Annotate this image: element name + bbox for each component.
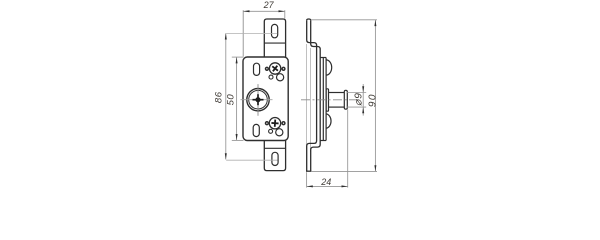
arrow 27 right [279, 10, 285, 12]
bottom screw bump [326, 114, 331, 129]
bottom tab fold line [264, 147, 285, 149]
arrow 27 left [243, 10, 249, 12]
arrow 24 right [342, 185, 348, 187]
shaft bottom line [329, 106, 345, 108]
side dot left top [266, 67, 269, 70]
dim 90 extension top [311, 19, 377, 21]
dim dia9 extension bottom [347, 106, 367, 108]
svg-text:⌀9: ⌀9 [353, 92, 365, 106]
dim 86 extension bottom [226, 159, 277, 161]
hub inner circle [249, 90, 268, 109]
small circle below-right top [277, 74, 284, 81]
arrow 86 top [225, 33, 227, 39]
dim 50 extension top [232, 56, 244, 58]
body slot upper-left [254, 63, 260, 75]
svg-text:86: 86 [213, 91, 224, 103]
dim dia9 line [362, 84, 364, 116]
arrow dia9 top (outside pointing down) [362, 86, 364, 92]
center hub circle [241, 84, 273, 116]
dim 27 line [243, 10, 284, 12]
small circle below-right bottom [276, 129, 283, 136]
dim 86 line [225, 33, 227, 159]
arrow 90 bottom [374, 165, 376, 171]
tiny circle below bottom [269, 129, 273, 133]
dim 50 extension bottom [232, 139, 244, 141]
dim 90 line [374, 20, 376, 172]
faceplate profile front line [307, 20, 317, 171]
hub center dot [255, 97, 260, 102]
dim 50 line [236, 57, 238, 140]
side dot right top [282, 67, 285, 70]
lock body plate [243, 57, 288, 141]
svg-text:90: 90 [367, 93, 378, 107]
bottom screw group [266, 118, 285, 136]
screw head top [269, 63, 280, 74]
faceplate top cap [307, 19, 311, 20]
side view centerline dash-dot [301, 99, 359, 101]
faceplate mid plane light lines [305, 44, 307, 149]
dim 24 line [307, 185, 348, 187]
arrow 50 bottom [236, 134, 238, 140]
arrow 50 top [236, 57, 238, 63]
shaft end cap [344, 90, 347, 109]
top tab fold line [264, 42, 285, 44]
top screw group [266, 63, 285, 81]
bottom mounting tab [264, 141, 285, 171]
shaft collar [326, 89, 328, 111]
bottom tab slot [272, 152, 278, 165]
tiny circle below top [269, 75, 273, 79]
hub thin centerline horizontal [241, 99, 273, 101]
dim 90 extension bottom [311, 170, 377, 172]
body slot lower-left [253, 124, 259, 136]
shaft top line [329, 92, 345, 94]
dim 24 extension right [347, 110, 349, 188]
faceplate profile back line [311, 20, 321, 171]
top mounting tab [264, 19, 285, 57]
dim 27 extension right [284, 10, 286, 18]
screw head bottom [269, 118, 280, 129]
arrow 24 left [307, 185, 313, 187]
arrow 86 bottom [225, 153, 227, 159]
phillips cross bottom [271, 119, 279, 127]
top tab slot [272, 24, 278, 37]
dim 27 extension left [242, 10, 244, 56]
arrow 90 top [374, 20, 376, 26]
phillips cross top [270, 63, 280, 73]
dim 24 extension left [306, 172, 308, 187]
body side line 1 [322, 58, 324, 141]
side dot left bottom [266, 122, 269, 125]
hub outer circle [247, 89, 269, 111]
hub center cross [253, 99, 264, 101]
hub thin centerline vertical [257, 84, 259, 116]
body side line 2 [325, 58, 327, 141]
side dot right bottom [282, 122, 285, 125]
body top stub [320, 57, 326, 59]
svg-text:27: 27 [263, 0, 275, 10]
arrow dia9 bottom (outside pointing up) [362, 107, 364, 113]
body bottom stub [320, 140, 326, 142]
faceplate bottom cap [306, 170, 311, 172]
dim dia9 extension top [347, 92, 367, 94]
dim 86 extension top [226, 32, 277, 34]
top screw bump [326, 60, 332, 75]
svg-text:50: 50 [226, 94, 237, 106]
svg-text:24: 24 [320, 177, 331, 187]
